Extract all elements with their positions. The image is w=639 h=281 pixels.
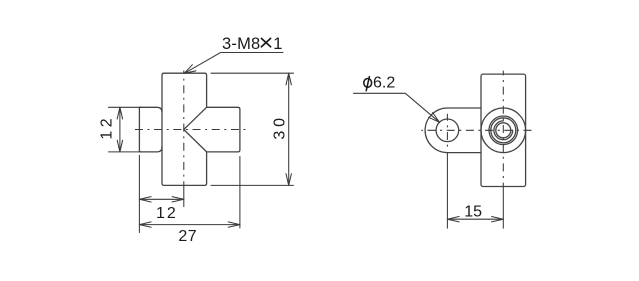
dim 27: right extension line — [239, 157, 241, 229]
dim 30: top extension line — [211, 72, 294, 74]
svg-text:30: 30 — [271, 114, 288, 139]
dim 30: bottom arrowhead — [286, 174, 291, 186]
dim 15: dimension line — [447, 218, 503, 220]
side view: counterbore circle inner — [491, 118, 516, 143]
side view: body block outline — [481, 74, 526, 186]
side view: tapped hole minor circle — [496, 123, 511, 138]
dim 30: dimension line — [288, 73, 290, 185]
hole callout: phi (diameter) symbol — [364, 77, 372, 91]
dim 15: right arrowhead — [492, 217, 504, 222]
dims 12/27 horizontal: left extension line — [138, 155, 140, 232]
dim 27: dimension line — [139, 224, 240, 226]
side view: port silhouette circle — [481, 108, 526, 153]
side view: boss centerline extension below (extension line for dim 15) — [446, 153, 448, 229]
svg-text:3-M8: 3-M8 — [222, 35, 260, 53]
side view: boss hole vertical centerline (dash-dot) — [446, 114, 448, 148]
dim 12 horizontal: right arrowhead — [172, 197, 184, 202]
svg-text:6.2: 6.2 — [373, 75, 395, 92]
dim 27: left arrowhead — [139, 222, 151, 227]
leader arrowhead (open) at body top — [184, 65, 196, 74]
side view: thread major 3/4 arc — [494, 121, 513, 140]
side view: block centerline extension below (extension line for dim 15) — [502, 187, 504, 229]
front view: left port stub outline — [139, 107, 162, 152]
dim 12 vertical: top extension line — [109, 106, 142, 108]
dim 12 vertical: dimension line — [119, 107, 121, 152]
dim 12 vertical: top arrowhead — [117, 107, 122, 119]
side view: phi 6.2 hole circle — [436, 119, 459, 142]
svg-text:12: 12 — [99, 115, 116, 140]
side view: block vertical centerline (dash-dot) — [502, 71, 504, 187]
side view: left boss (rounded tab) outline — [425, 108, 481, 153]
dim 27: right arrowhead — [228, 222, 240, 227]
side view: horizontal centerline (dash-dot) — [421, 129, 531, 131]
thread callout multiplication sign — [261, 38, 270, 46]
dim 12 horizontal: dimension line — [139, 198, 183, 200]
front view: vertical centerline (dash-dot) — [183, 71, 185, 186]
leader line for thread callout 3-M8x1 — [184, 53, 283, 74]
front view: vertical body outline — [162, 73, 207, 185]
dim 30: top arrowhead — [286, 73, 291, 85]
front view: right port stub with V-shaped drill point to center — [184, 107, 240, 152]
svg-text:1: 1 — [273, 35, 282, 53]
dim 15: left arrowhead — [447, 217, 459, 222]
dim 12 horizontal: left arrowhead — [139, 197, 151, 202]
dim 12 vertical: bottom extension line — [109, 151, 142, 153]
leader arrowhead (open) at hole edge — [429, 113, 440, 123]
svg-text:27: 27 — [178, 228, 197, 245]
front view: centerline extension below body (extension line for dim 12) — [183, 185, 185, 207]
dim 30: bottom extension line — [211, 184, 294, 186]
dim 12 vertical: bottom arrowhead — [117, 140, 122, 152]
leader line for hole callout phi 6.2 — [354, 93, 440, 122]
front view: horizontal centerline (dash-dot) — [135, 129, 248, 131]
side view: counterbore circle outer — [489, 116, 518, 145]
svg-text:12: 12 — [156, 205, 178, 222]
svg-text:15: 15 — [464, 204, 482, 221]
